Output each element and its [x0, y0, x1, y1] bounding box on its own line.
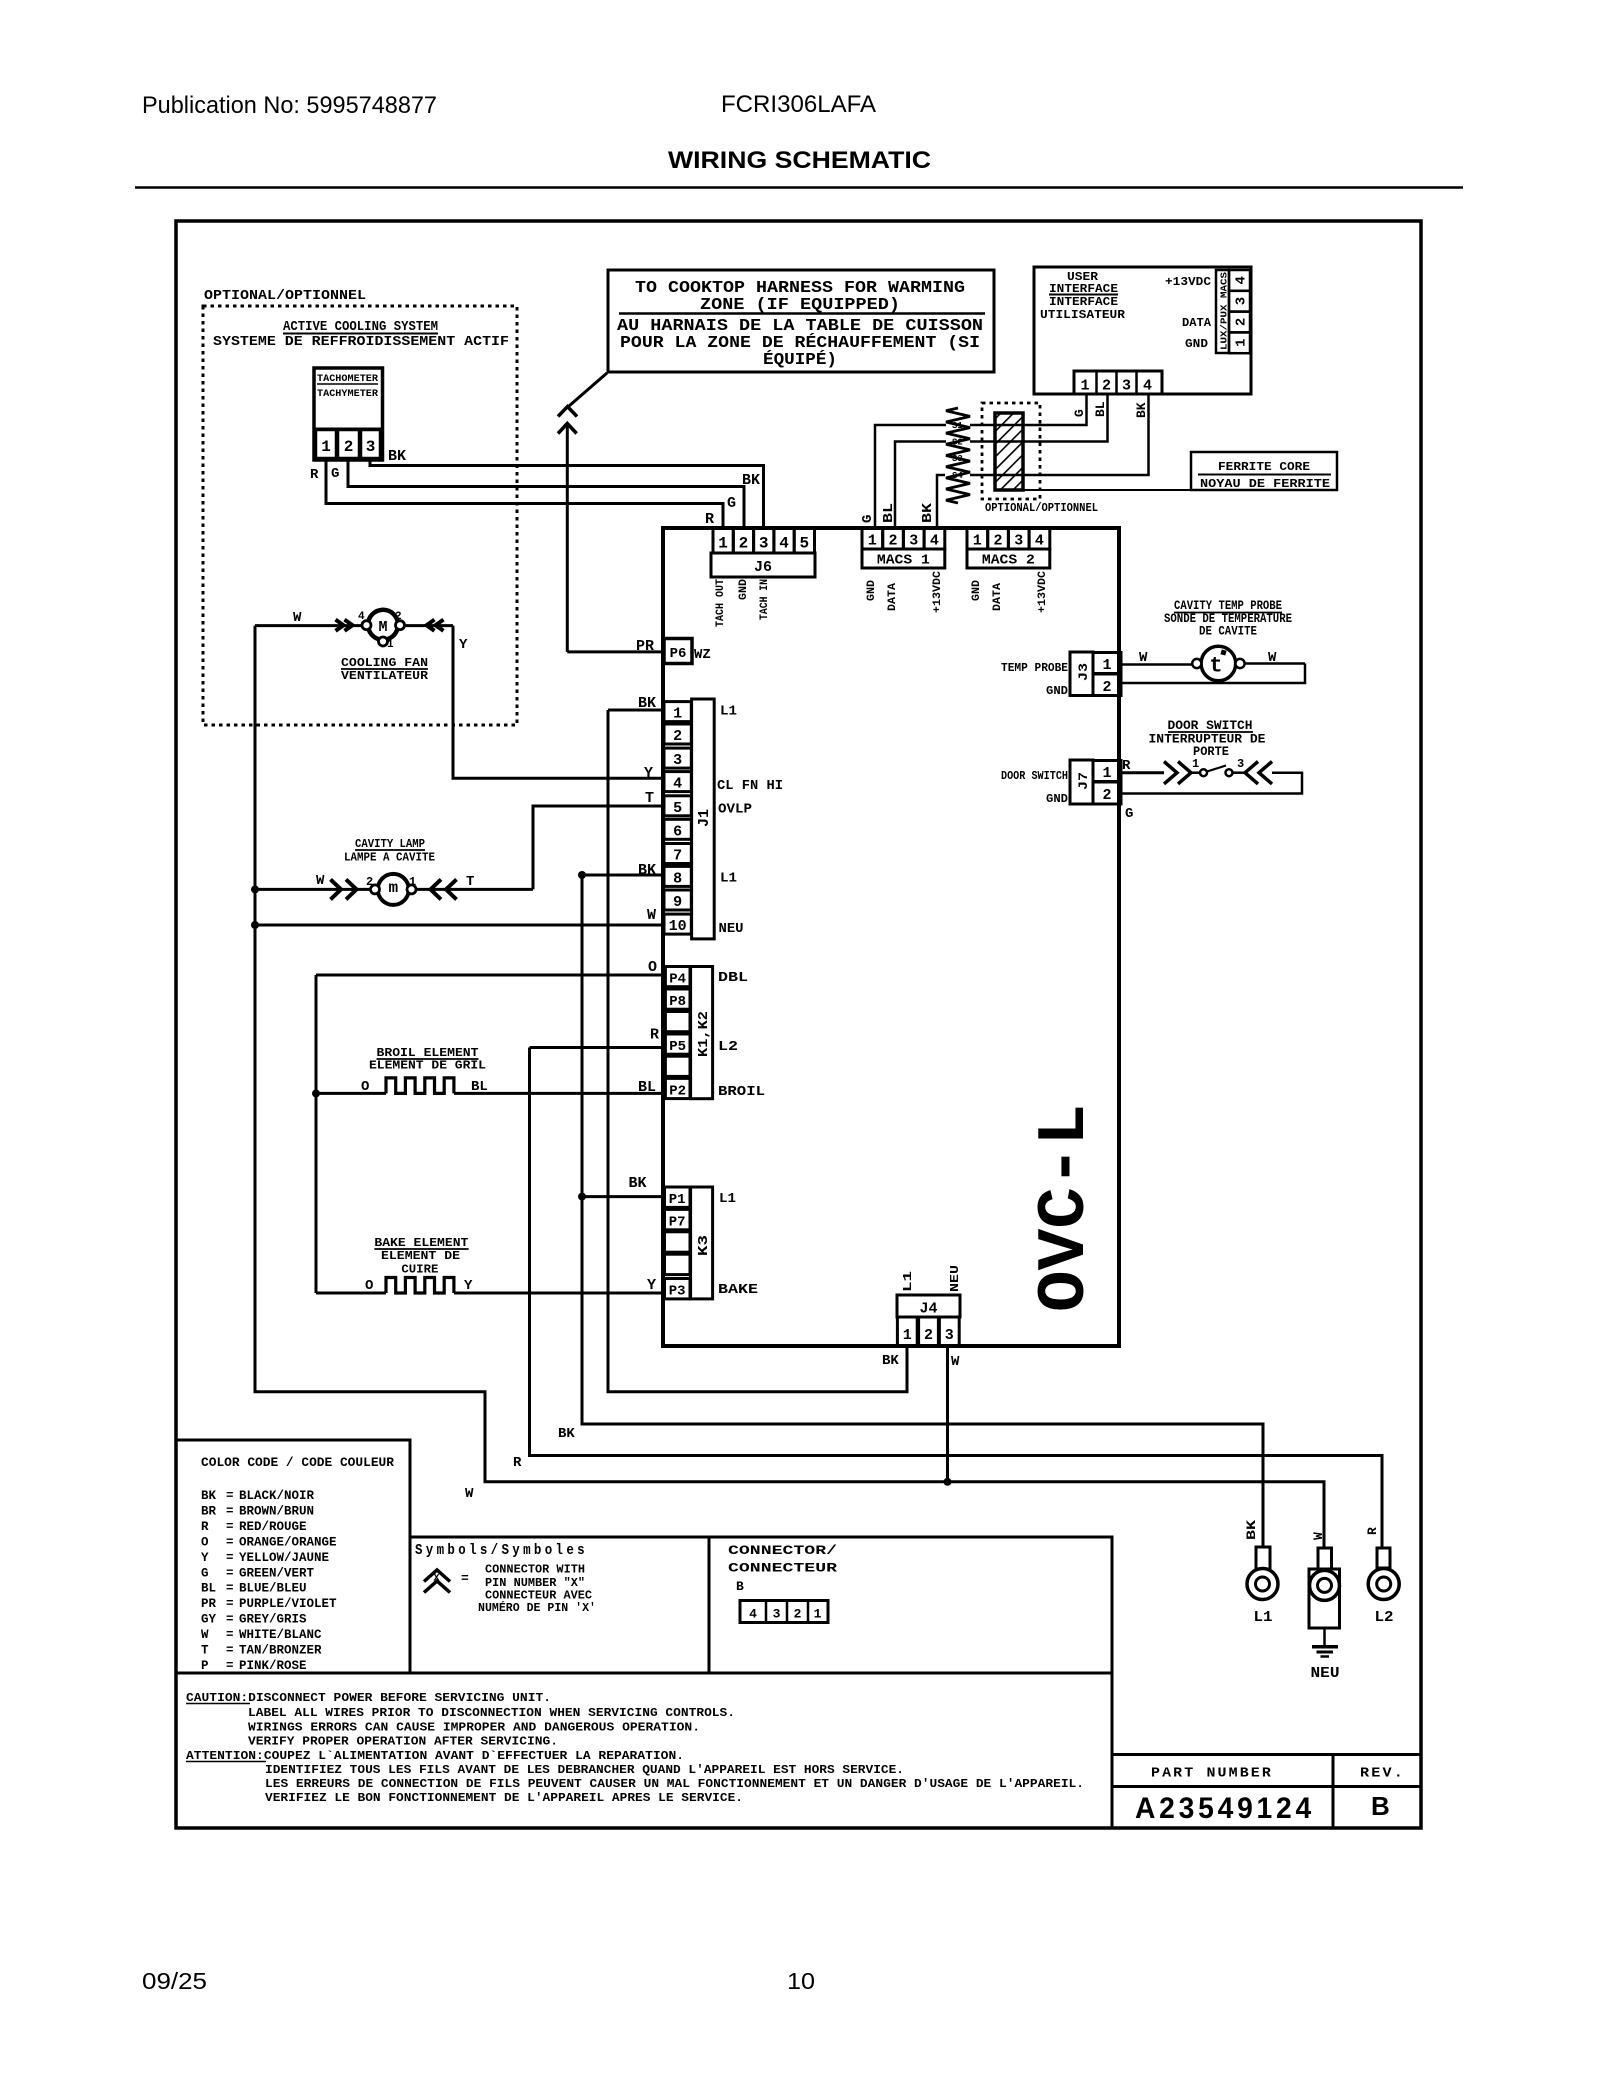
svg-text:L1: L1 — [720, 872, 737, 887]
svg-text:NOYAU DE FERRITE: NOYAU DE FERRITE — [1200, 477, 1330, 491]
svg-text:T: T — [201, 1644, 209, 1658]
svg-text:GND: GND — [1046, 792, 1068, 806]
svg-text:1: 1 — [814, 1607, 822, 1622]
svg-text:BL: BL — [201, 1582, 216, 1596]
svg-text:WZ: WZ — [694, 647, 711, 663]
svg-text:+13VDC: +13VDC — [1165, 275, 1211, 289]
svg-text:2: 2 — [366, 875, 373, 889]
svg-text:PR: PR — [636, 638, 654, 655]
svg-text:R: R — [705, 511, 714, 528]
svg-text:=: = — [461, 1571, 469, 1586]
svg-text:3: 3 — [366, 438, 376, 456]
svg-text:3: 3 — [1237, 757, 1244, 771]
svg-text:DATA: DATA — [887, 583, 899, 611]
svg-text:CONNECTEUR: CONNECTEUR — [728, 1561, 837, 1576]
svg-text:1: 1 — [1192, 757, 1199, 771]
svg-text:J3: J3 — [1076, 663, 1091, 681]
svg-text:R: R — [1122, 758, 1131, 774]
svg-text:WHITE/BLANC: WHITE/BLANC — [239, 1628, 322, 1642]
svg-text:4: 4 — [1234, 276, 1250, 284]
svg-text:1: 1 — [903, 1327, 912, 1344]
svg-text:L1: L1 — [720, 705, 737, 720]
svg-text:OVC-L: OVC-L — [1027, 1104, 1104, 1312]
svg-text:OPTIONAL/OPTIONNEL: OPTIONAL/OPTIONNEL — [985, 501, 1098, 515]
svg-text:BLACK/NOIR: BLACK/NOIR — [239, 1489, 315, 1503]
svg-text:1: 1 — [409, 875, 416, 889]
svg-text:2: 2 — [673, 728, 682, 745]
svg-text:W: W — [465, 1486, 474, 1502]
svg-text:J7: J7 — [1076, 772, 1091, 790]
svg-text:2: 2 — [344, 438, 354, 456]
svg-text:BK: BK — [558, 1426, 575, 1442]
svg-text:NUMÉRO DE PIN 'X': NUMÉRO DE PIN 'X' — [478, 1601, 596, 1615]
svg-text:TAN/BRONZER: TAN/BRONZER — [239, 1644, 322, 1658]
svg-text:DATA: DATA — [1182, 316, 1212, 330]
svg-text:BK: BK — [201, 1489, 217, 1503]
svg-text:CL FN HI: CL FN HI — [717, 779, 783, 794]
svg-text:1: 1 — [387, 639, 394, 651]
svg-text:BLUE/BLEU: BLUE/BLEU — [239, 1582, 307, 1596]
svg-text:G: G — [201, 1566, 209, 1580]
svg-text:VERIFY PROPER OPERATION AFTER: VERIFY PROPER OPERATION AFTER SERVICING. — [248, 1735, 558, 1749]
svg-text:NEU: NEU — [948, 1265, 962, 1292]
svg-text:L1: L1 — [719, 1192, 736, 1207]
svg-text:BR: BR — [201, 1504, 217, 1518]
svg-text:SYSTEME DE REFFROIDISSEMENT AC: SYSTEME DE REFFROIDISSEMENT ACTIF — [213, 334, 509, 350]
svg-text:K1,K2: K1,K2 — [696, 1011, 712, 1057]
svg-text:4: 4 — [930, 533, 939, 550]
svg-text:PINK/ROSE: PINK/ROSE — [239, 1659, 307, 1673]
svg-text:DBL: DBL — [718, 971, 748, 986]
svg-text:T: T — [466, 874, 474, 890]
svg-text:1: 1 — [321, 438, 331, 456]
svg-text:BAKE ELEMENT: BAKE ELEMENT — [374, 1236, 468, 1250]
svg-text:TACHYMETER: TACHYMETER — [317, 389, 378, 400]
svg-text:GREY/GRIS: GREY/GRIS — [239, 1613, 307, 1627]
svg-text:4: 4 — [1035, 533, 1044, 550]
svg-text:FERRITE CORE: FERRITE CORE — [1218, 460, 1310, 474]
svg-text:ÉQUIPÉ): ÉQUIPÉ) — [763, 350, 837, 370]
svg-text:TACH OUT: TACH OUT — [715, 579, 727, 627]
svg-text:P: P — [201, 1659, 209, 1673]
svg-text:DOOR SWITCH: DOOR SWITCH — [1001, 769, 1068, 783]
svg-text:=: = — [226, 1504, 234, 1518]
svg-text:2: 2 — [888, 533, 897, 550]
svg-text:4: 4 — [749, 1607, 757, 1622]
svg-text:NEU: NEU — [1311, 1665, 1340, 1682]
svg-text:NEU: NEU — [719, 922, 744, 937]
svg-text:3: 3 — [945, 1327, 954, 1344]
svg-text:W: W — [647, 907, 656, 924]
svg-text:Symbols/Symboles: Symbols/Symboles — [415, 1542, 588, 1559]
svg-text:CUIRE: CUIRE — [401, 1263, 438, 1277]
svg-text:CONNECTEUR AVEC: CONNECTEUR AVEC — [485, 1590, 592, 1603]
svg-text:L2: L2 — [1375, 1609, 1394, 1626]
svg-text:6: 6 — [673, 823, 682, 840]
svg-text:4: 4 — [779, 535, 789, 553]
svg-text:BK: BK — [388, 448, 406, 465]
svg-text:2: 2 — [739, 535, 749, 553]
svg-text:Y: Y — [644, 765, 653, 782]
svg-text:1: 1 — [973, 533, 982, 550]
svg-text:=: = — [226, 1535, 234, 1549]
svg-text:t: t — [1209, 654, 1222, 679]
svg-text:MACS 2: MACS 2 — [982, 553, 1035, 569]
svg-text:ELEMENT DE GRIL: ELEMENT DE GRIL — [369, 1059, 486, 1073]
svg-text:BK: BK — [920, 502, 936, 523]
svg-text:2: 2 — [1102, 378, 1111, 395]
svg-text:=: = — [226, 1628, 234, 1642]
svg-text:PURPLE/VIOLET: PURPLE/VIOLET — [239, 1597, 337, 1611]
svg-text:=: = — [226, 1489, 234, 1503]
svg-text:=: = — [226, 1644, 234, 1658]
svg-text:10: 10 — [669, 918, 687, 935]
svg-text:DOOR SWITCH: DOOR SWITCH — [1168, 719, 1253, 733]
svg-text:R: R — [310, 467, 319, 483]
svg-text:4: 4 — [673, 776, 682, 793]
svg-text:=: = — [226, 1566, 234, 1580]
svg-text:Y: Y — [459, 637, 468, 653]
svg-text:BK: BK — [1134, 402, 1149, 418]
svg-text:BROIL: BROIL — [718, 1085, 765, 1100]
svg-text:VENTILATEUR: VENTILATEUR — [341, 669, 429, 683]
svg-text:Y: Y — [647, 1277, 656, 1294]
svg-text:OVLP: OVLP — [718, 803, 752, 818]
svg-text:W: W — [201, 1628, 209, 1642]
svg-text:P8: P8 — [669, 994, 686, 1010]
svg-text:GND: GND — [866, 580, 878, 601]
svg-text:B: B — [736, 1579, 744, 1594]
svg-text:=: = — [226, 1659, 234, 1673]
svg-text:+13VDC: +13VDC — [932, 571, 944, 613]
svg-text:3: 3 — [1122, 378, 1131, 395]
svg-text:P2: P2 — [669, 1083, 686, 1099]
svg-text:WIRINGS ERRORS CAN CAUSE IMPRO: WIRINGS ERRORS CAN CAUSE IMPROPER AND DA… — [248, 1721, 700, 1735]
svg-text:BAKE: BAKE — [718, 1283, 758, 1298]
svg-text:P3: P3 — [669, 1284, 686, 1300]
svg-text:+13VDC: +13VDC — [1037, 571, 1049, 613]
svg-text:2: 2 — [794, 1607, 802, 1622]
svg-text:1: 1 — [718, 535, 728, 553]
svg-text:CONNECTOR WITH: CONNECTOR WITH — [485, 1564, 585, 1577]
svg-text:L1: L1 — [901, 1271, 915, 1292]
svg-text:ELEMENT DE: ELEMENT DE — [381, 1249, 460, 1263]
svg-text:3: 3 — [909, 533, 918, 550]
svg-text:GND: GND — [971, 580, 983, 601]
svg-text:O: O — [648, 959, 657, 976]
svg-text:BK: BK — [882, 1353, 899, 1369]
svg-text:LES ERREURS DE CONNECTION DE F: LES ERREURS DE CONNECTION DE FILS PEUVEN… — [265, 1777, 1084, 1791]
svg-text:CAVITY TEMP PROBE: CAVITY TEMP PROBE — [1174, 599, 1282, 613]
svg-text:Publication No: 5995748877: Publication No: 5995748877 — [142, 92, 437, 119]
svg-text:m: m — [388, 879, 398, 897]
svg-text:TEMP PROBE: TEMP PROBE — [1001, 661, 1068, 675]
svg-text:UTILISATEUR: UTILISATEUR — [1040, 308, 1126, 322]
svg-text:S1: S1 — [952, 421, 963, 431]
svg-text:VERIFIEZ LE BON FONCTIONNEMENT: VERIFIEZ LE BON FONCTIONNEMENT DE L'APPA… — [265, 1791, 743, 1805]
svg-text:R: R — [513, 1455, 522, 1471]
svg-text:BK: BK — [629, 1175, 647, 1192]
svg-text:S3: S3 — [952, 454, 963, 464]
svg-text:PIN NUMBER ″X″: PIN NUMBER ″X″ — [485, 1577, 585, 1590]
svg-text:LAMPE A CAVITE: LAMPE A CAVITE — [344, 851, 435, 865]
svg-text:J6: J6 — [754, 559, 772, 576]
svg-text:=: = — [226, 1520, 234, 1534]
svg-text:J1: J1 — [696, 809, 713, 827]
svg-text:G: G — [1125, 806, 1133, 822]
svg-text:ORANGE/ORANGE: ORANGE/ORANGE — [239, 1535, 337, 1549]
svg-text:IDENTIFIEZ TOUS LES FILS AVANT: IDENTIFIEZ TOUS LES FILS AVANT DE LES DE… — [265, 1763, 904, 1777]
svg-text:3: 3 — [773, 1607, 781, 1622]
svg-text:R: R — [650, 1027, 659, 1044]
svg-text:CONNECTOR/: CONNECTOR/ — [728, 1543, 837, 1558]
svg-text:=: = — [226, 1551, 234, 1565]
svg-text:L2: L2 — [718, 1040, 738, 1055]
svg-text:3: 3 — [759, 535, 769, 553]
svg-text:=: = — [226, 1613, 234, 1627]
svg-text:R: R — [1365, 1527, 1380, 1535]
svg-text:WIRING SCHEMATIC: WIRING SCHEMATIC — [668, 147, 931, 174]
svg-text:2: 2 — [1234, 318, 1250, 326]
svg-text:8: 8 — [673, 870, 682, 887]
svg-text:PART NUMBER: PART NUMBER — [1151, 1766, 1273, 1782]
svg-text:COOLING FAN: COOLING FAN — [341, 656, 428, 670]
svg-text:3: 3 — [1234, 297, 1250, 305]
svg-text:1: 1 — [1102, 765, 1111, 782]
svg-text:2: 2 — [993, 533, 1002, 550]
svg-text:FCRI306LAFA: FCRI306LAFA — [721, 91, 876, 118]
svg-text:MACS 1: MACS 1 — [877, 553, 930, 569]
svg-text:W: W — [1268, 650, 1277, 666]
svg-text:W: W — [1311, 1532, 1326, 1540]
svg-text:YELLOW/JAUNE: YELLOW/JAUNE — [239, 1551, 329, 1565]
svg-text:G: G — [1072, 409, 1087, 417]
svg-text:W: W — [316, 873, 325, 889]
svg-text:W: W — [1139, 650, 1148, 666]
svg-text:LABEL ALL WIRES PRIOR TO DISCO: LABEL ALL WIRES PRIOR TO DISCONNECTION W… — [248, 1706, 735, 1720]
svg-text:INTERFACE: INTERFACE — [1049, 295, 1118, 309]
svg-text:K3: K3 — [696, 1235, 712, 1256]
svg-text:1: 1 — [673, 706, 682, 723]
svg-text:1: 1 — [1080, 378, 1089, 395]
svg-text:R: R — [201, 1520, 209, 1534]
svg-text:GND: GND — [1046, 684, 1068, 698]
svg-text:G: G — [331, 466, 339, 482]
svg-text:5: 5 — [673, 800, 682, 817]
svg-text:PR: PR — [201, 1597, 217, 1611]
svg-text:TACH IN: TACH IN — [759, 579, 771, 620]
svg-text:2: 2 — [395, 611, 402, 623]
svg-text:DATA: DATA — [992, 583, 1004, 611]
svg-text:M: M — [378, 619, 387, 636]
svg-text:P7: P7 — [669, 1214, 686, 1230]
svg-text:2: 2 — [1102, 679, 1111, 696]
svg-text:7: 7 — [673, 848, 682, 865]
svg-text:9: 9 — [673, 894, 682, 911]
svg-text:Y: Y — [201, 1551, 209, 1565]
svg-text:BK: BK — [742, 472, 760, 489]
svg-text:X: X — [433, 1574, 439, 1585]
svg-text:W: W — [951, 1354, 960, 1370]
svg-text:GREEN/VERT: GREEN/VERT — [239, 1566, 315, 1580]
svg-text:G: G — [727, 495, 736, 512]
svg-text:GND: GND — [1185, 337, 1208, 351]
svg-text:T: T — [645, 790, 654, 807]
svg-text:G: G — [860, 515, 876, 523]
svg-text:S2: S2 — [952, 438, 963, 448]
svg-text:1: 1 — [1102, 657, 1111, 674]
svg-text:POUR LA ZONE DE RÉCHAUFFEMENT: POUR LA ZONE DE RÉCHAUFFEMENT (SI — [620, 333, 980, 353]
svg-text:BK: BK — [1244, 1520, 1259, 1540]
svg-text:3: 3 — [673, 752, 682, 769]
svg-text:P6: P6 — [670, 646, 687, 662]
svg-text:GY: GY — [201, 1613, 217, 1627]
svg-text:REV.: REV. — [1360, 1766, 1405, 1782]
svg-text:P1: P1 — [669, 1192, 686, 1208]
svg-text:DE CAVITE: DE CAVITE — [1199, 625, 1257, 639]
svg-text:09/25: 09/25 — [142, 1968, 207, 1994]
svg-text:2: 2 — [1102, 787, 1111, 804]
svg-text:GND: GND — [738, 579, 750, 600]
svg-text:L1: L1 — [1254, 1609, 1273, 1626]
svg-text:S4: S4 — [952, 471, 963, 481]
svg-text:=: = — [226, 1582, 234, 1596]
svg-text:3: 3 — [1014, 533, 1023, 550]
svg-text:5: 5 — [799, 535, 809, 553]
svg-text:1: 1 — [1234, 338, 1250, 346]
svg-text:BL: BL — [881, 503, 897, 523]
svg-text:ZONE (IF EQUIPPED): ZONE (IF EQUIPPED) — [700, 296, 900, 315]
svg-text:OPTIONAL/OPTIONNEL: OPTIONAL/OPTIONNEL — [204, 288, 366, 304]
svg-text:O: O — [201, 1535, 209, 1549]
svg-text:COLOR CODE / CODE COULEUR: COLOR CODE / CODE COULEUR — [201, 1456, 395, 1470]
svg-text:B: B — [1371, 1791, 1390, 1821]
svg-text:4: 4 — [358, 611, 365, 623]
svg-text:BL: BL — [1093, 401, 1108, 417]
svg-text:P4: P4 — [669, 972, 686, 988]
svg-text:P5: P5 — [669, 1039, 686, 1055]
svg-text:=: = — [226, 1597, 234, 1611]
svg-text:4: 4 — [1143, 378, 1152, 395]
svg-text:CAVITY LAMP: CAVITY LAMP — [355, 837, 425, 851]
svg-text:RED/ROUGE: RED/ROUGE — [239, 1520, 307, 1534]
svg-text:W: W — [293, 610, 302, 626]
svg-text:BROWN/BRUN: BROWN/BRUN — [239, 1504, 314, 1518]
svg-text:A23549124: A23549124 — [1135, 1792, 1315, 1825]
svg-text:J4: J4 — [919, 1301, 937, 1318]
svg-text:2: 2 — [924, 1327, 933, 1344]
svg-text:1: 1 — [868, 533, 877, 550]
svg-text:10: 10 — [787, 1968, 815, 1994]
